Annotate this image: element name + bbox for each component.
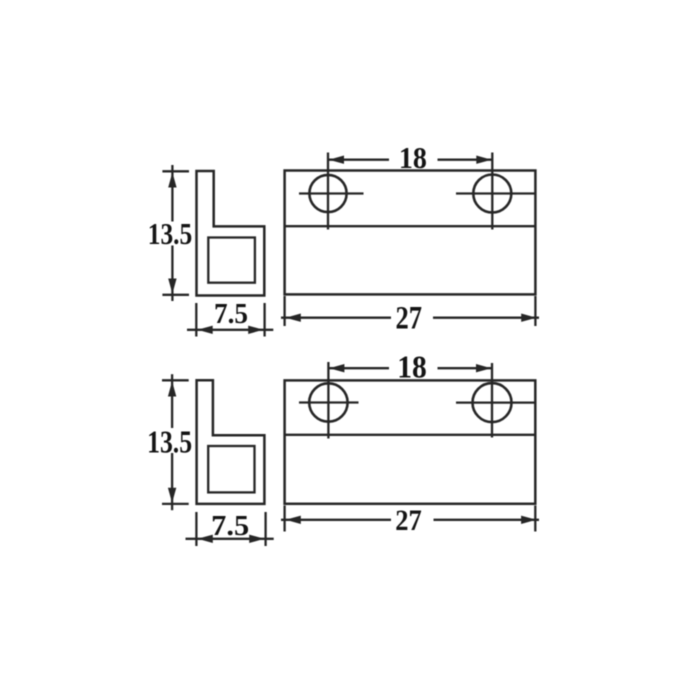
- front view rectangle (bottom group): [285, 380, 536, 503]
- right mounting hole circle (bottom group): [473, 383, 512, 422]
- left mounting hole circle (bottom group): [309, 383, 347, 421]
- svg-text:13.5: 13.5: [147, 423, 192, 459]
- dimension line 27 (bottom group): [281, 506, 539, 532]
- dimension line 18 (top group): [328, 156, 492, 164]
- svg-text:18: 18: [399, 140, 427, 175]
- left hole vertical center line (bottom group): [327, 362, 329, 439]
- inner square hole of side view (bottom group): [208, 446, 254, 492]
- svg-text:27: 27: [396, 300, 423, 336]
- left hole vertical center line (top group): [327, 153, 329, 230]
- right hole horizontal crosshair (bottom group): [456, 401, 535, 403]
- dimension line 7.5 horizontal (bottom group): [186, 512, 274, 546]
- svg-text:27: 27: [395, 504, 422, 537]
- right hole vertical center line (bottom group): [491, 363, 493, 438]
- dimension line 18 (bottom group): [328, 364, 492, 372]
- left hole horizontal crosshair (bottom group): [299, 401, 359, 403]
- svg-text:18: 18: [397, 349, 427, 385]
- right hole horizontal crosshair (top group): [456, 192, 535, 194]
- right mounting hole circle (top group): [473, 175, 511, 213]
- horizontal divider line in front view (bottom group): [285, 434, 536, 436]
- dimension line 27 (top group): [281, 296, 539, 326]
- inner square hole of side view (top group): [208, 238, 255, 283]
- horizontal divider line in front view (top group): [285, 225, 536, 227]
- right hole vertical center line (top group): [491, 153, 493, 230]
- svg-text:7.5: 7.5: [214, 299, 248, 330]
- dimension line 13.5 vertical (bottom group): [162, 374, 189, 510]
- dimension line 13.5 vertical (top group): [162, 165, 189, 301]
- front view rectangle (top group): [285, 171, 536, 295]
- svg-text:13.5: 13.5: [148, 216, 193, 251]
- left mounting hole circle (top group): [309, 175, 346, 212]
- dimension line 7.5 horizontal (top group): [187, 303, 273, 337]
- svg-text:7.5: 7.5: [211, 510, 249, 542]
- left hole horizontal crosshair (top group): [299, 192, 364, 194]
- side view L-profile outline (bottom group): [197, 380, 265, 504]
- side view L-profile outline (top group): [197, 171, 265, 296]
